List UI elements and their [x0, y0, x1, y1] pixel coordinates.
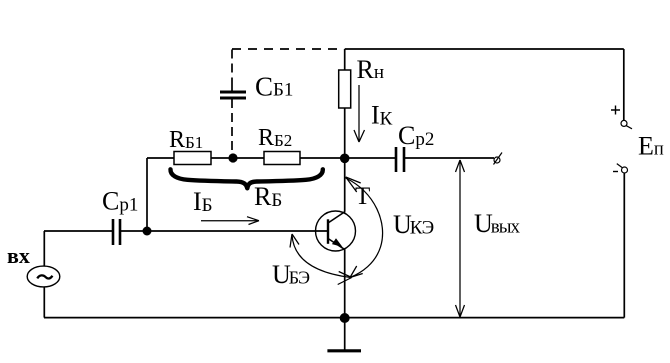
svg-text:T: T	[355, 183, 370, 210]
svg-text:вх: вх	[7, 243, 30, 268]
